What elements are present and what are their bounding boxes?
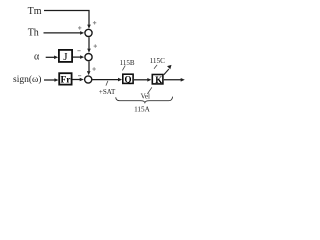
svg-text:Fr: Fr	[60, 76, 71, 86]
svg-text:115A: 115A	[134, 105, 151, 113]
svg-text:115C: 115C	[150, 57, 166, 65]
wire Th to S1	[44, 32, 82, 34]
svg-text:α: α	[34, 52, 40, 63]
svg-text:K: K	[155, 75, 162, 85]
wire K to output	[164, 79, 181, 81]
svg-text:Th: Th	[28, 27, 39, 38]
sign + (S2 top input)	[94, 44, 97, 47]
arrowhead into J left	[54, 56, 58, 60]
block J	[59, 50, 72, 62]
summing junction S2	[85, 54, 92, 61]
arrowhead into S3 left	[80, 78, 84, 82]
wire alpha to J	[46, 56, 55, 58]
svg-text:Vel: Vel	[141, 93, 150, 101]
arrowhead into S3 top	[87, 71, 91, 75]
svg-text:+SAT: +SAT	[99, 88, 116, 96]
underbrace 115A	[116, 97, 173, 103]
arrowhead into K left	[147, 78, 151, 82]
wire sign(omega) to Fr	[44, 79, 55, 81]
sign - (S2 left input)	[77, 50, 80, 52]
svg-text:sign(ω): sign(ω)	[13, 74, 41, 85]
arrowhead into S2 left	[80, 55, 84, 59]
wire Tm to summing junction S1 (over-and-down)	[44, 11, 89, 26]
block Q	[123, 74, 133, 83]
svg-text:Q: Q	[124, 74, 131, 84]
wire Q to K	[134, 79, 148, 81]
block K	[152, 75, 163, 84]
sign + (S1 top input)	[93, 21, 96, 24]
wire S3 to Q	[92, 79, 118, 81]
sign + (S1 left input)	[78, 26, 81, 29]
svg-text:115B: 115B	[120, 59, 135, 67]
sign - (S3 left input)	[78, 75, 81, 77]
arrowhead into S1 top	[87, 25, 91, 29]
wire S1 to S2	[88, 37, 90, 49]
arrowhead into S2 top	[87, 49, 91, 53]
wire S2 to S3	[88, 61, 90, 71]
label +SAT with leader	[106, 81, 108, 86]
block Fr	[59, 73, 71, 84]
adjustable-gain diagonal arrow on K	[164, 69, 169, 75]
wire J to S2	[73, 56, 81, 58]
output arrowhead	[181, 78, 185, 82]
arrowhead into Q left	[118, 78, 122, 82]
svg-text:J: J	[63, 51, 68, 63]
sign + (S3 top input)	[92, 67, 95, 70]
summing junction S1	[85, 29, 92, 36]
wire Fr to S3	[73, 79, 81, 81]
arrowhead into Fr left	[54, 78, 58, 82]
svg-text:Tm: Tm	[28, 6, 42, 17]
summing junction S3	[85, 76, 92, 83]
arrowhead into S1 left	[80, 31, 84, 35]
